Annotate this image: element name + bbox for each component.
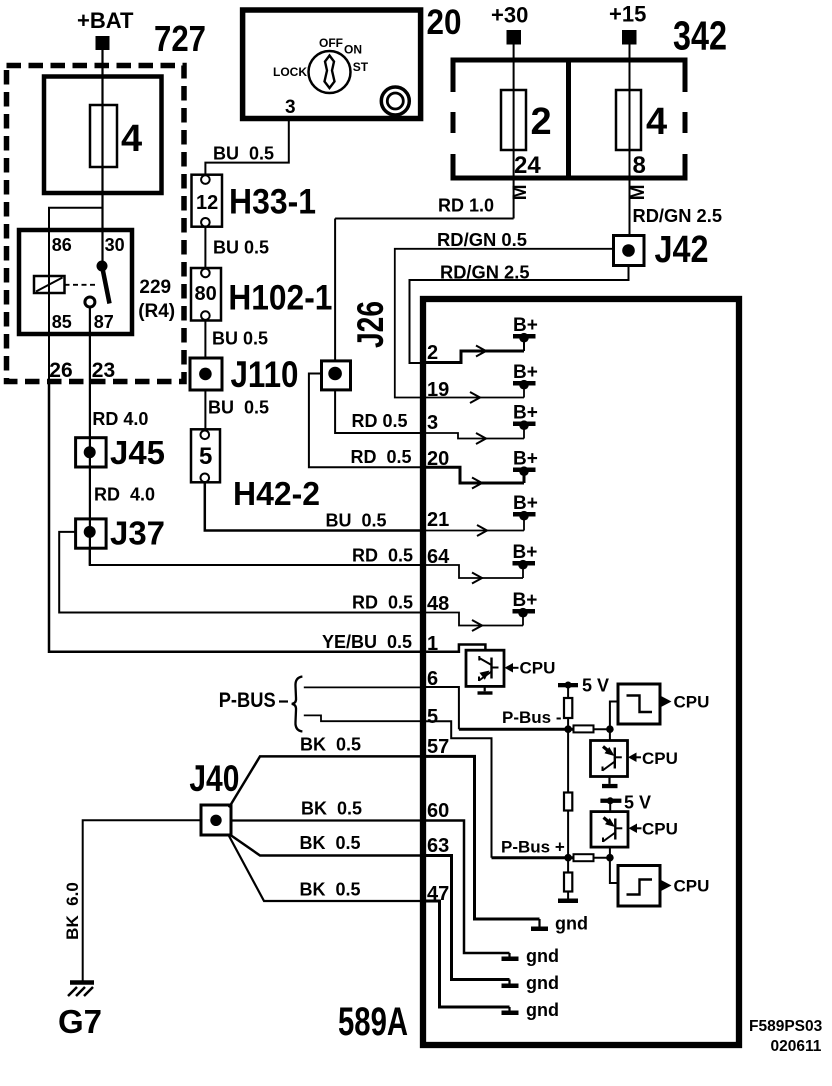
svg-text:BU 0.5: BU 0.5: [213, 238, 269, 258]
svg-text:4: 4: [121, 118, 142, 160]
svg-text:P-Bus +: P-Bus +: [501, 838, 565, 857]
wire J40 to pin 47 (BK 0.5): [229, 835, 424, 901]
svg-text:J26: J26: [350, 301, 391, 348]
wire +15 through fuse 4 down to J42: [629, 45, 631, 236]
wire branch to relay coil 86: [49, 208, 103, 384]
svg-text:57: 57: [427, 736, 449, 758]
wire J40 to pin 57 (BK 0.5): [229, 756, 423, 807]
CPU arrow U1: [505, 663, 514, 673]
svg-text:H33-1: H33-1: [229, 183, 316, 222]
svg-text:30: 30: [105, 235, 125, 255]
fuse 4: [90, 105, 117, 167]
CPU arrow U2: [628, 753, 637, 763]
ground under U1: [484, 686, 486, 691]
svg-text:B+: B+: [513, 403, 538, 424]
svg-text:RD/GN 2.5: RD/GN 2.5: [440, 263, 530, 283]
svg-text:RD 4.0: RD 4.0: [92, 409, 148, 429]
wire +BAT down to relay contact 30: [101, 50, 103, 266]
resistor R3: [564, 873, 572, 892]
gnd pin 63: [502, 973, 560, 993]
comparator rising-edge box: [618, 866, 660, 907]
wire J26 from RD 1.0 down: [334, 219, 336, 361]
svg-text:3: 3: [285, 97, 296, 118]
wire U3 down to P-Bus +: [609, 847, 611, 858]
svg-text:G7: G7: [58, 1003, 102, 1040]
key glyph: [325, 56, 335, 89]
svg-text:3: 3: [427, 412, 438, 434]
svg-text:(R4): (R4): [138, 301, 175, 322]
svg-text:342: 342: [673, 13, 727, 59]
wire H33-1 to H102-1: [204, 227, 206, 268]
svg-text:+15: +15: [609, 2, 646, 27]
svg-text:5: 5: [199, 443, 212, 470]
gnd pin 57: [531, 914, 588, 934]
svg-text:+BAT: +BAT: [77, 8, 134, 33]
svg-text:M: M: [628, 184, 649, 200]
svg-text:F589PS03: F589PS03: [749, 1018, 823, 1035]
svg-text:589A: 589A: [338, 1000, 408, 1044]
connector H102-1: [191, 268, 221, 321]
svg-text:BK 0.5: BK 0.5: [300, 833, 361, 853]
svg-text:RD 0.5: RD 0.5: [352, 546, 413, 566]
svg-text:020611: 020611: [771, 1038, 822, 1055]
wire pin 26 down and right to pin 1 (YE/BU 0.5): [49, 384, 423, 652]
op-amp U3 CPU input: [591, 812, 628, 848]
op-amp U2 CPU input: [591, 741, 628, 777]
brace: [292, 677, 303, 732]
svg-text:B+: B+: [513, 362, 538, 383]
svg-text:gnd: gnd: [526, 1000, 559, 1020]
wire +30 through fuse 2 down: [513, 45, 515, 219]
svg-text:OFF: OFF: [319, 36, 343, 50]
relay contact 30 dot and lever: [97, 261, 108, 272]
svg-text:gnd: gnd: [526, 973, 559, 993]
svg-text:H102-1: H102-1: [228, 279, 332, 318]
svg-text:RD 0.5: RD 0.5: [352, 411, 408, 431]
node dot 2: [606, 725, 614, 733]
svg-text:B+: B+: [513, 590, 538, 611]
svg-text:2: 2: [427, 342, 438, 364]
svg-text:21: 21: [427, 509, 449, 531]
B+ pin 21: [513, 493, 538, 521]
wire H102-1 to J110: [204, 321, 206, 359]
ignition switch unit 20: [243, 10, 421, 119]
ECU box 589A: [423, 299, 739, 1045]
wire J40 to pin 60 (BK 0.5): [231, 819, 423, 821]
splice J42: [614, 236, 645, 266]
wire RD/GN 0.5 J42 to pin 19: [395, 249, 614, 398]
svg-text:M: M: [510, 184, 531, 200]
svg-text:5: 5: [427, 706, 438, 728]
svg-text:5 V: 5 V: [582, 676, 609, 696]
svg-text:8: 8: [633, 152, 646, 179]
svg-text:J40: J40: [189, 758, 239, 799]
resistor RH2: [574, 854, 594, 861]
svg-text:60: 60: [427, 800, 449, 822]
svg-text:24: 24: [514, 152, 541, 179]
svg-text:4: 4: [646, 101, 667, 143]
gnd pin 60: [502, 946, 560, 966]
svg-text:86: 86: [52, 235, 72, 255]
connector H33-1: [192, 175, 223, 227]
ground under U2: [608, 777, 610, 784]
node P-Bus - dot 1: [564, 725, 572, 733]
wire J40 left to G7 (BK 6.0): [83, 820, 201, 982]
svg-text:20: 20: [427, 3, 462, 42]
wire dot2 up to comparator 1: [610, 702, 618, 730]
CPU arrow comparator 1: [661, 696, 672, 707]
svg-text:CPU: CPU: [642, 820, 678, 839]
svg-text:229: 229: [139, 277, 171, 298]
svg-text:LOCK: LOCK: [273, 65, 307, 79]
svg-text:RD 4.0: RD 4.0: [94, 485, 155, 505]
svg-text:RD 0.5: RD 0.5: [352, 593, 413, 613]
wire J110 to H42-2: [204, 390, 206, 429]
fuse 4: [616, 90, 641, 150]
wire H42-2 to pin 21 (BU 0.5): [205, 482, 423, 530]
svg-text:gnd: gnd: [526, 946, 559, 966]
svg-text:B+: B+: [513, 493, 538, 514]
svg-text:P-Bus -: P-Bus -: [502, 708, 562, 727]
connector H42-2: [191, 429, 220, 482]
B+ pin 3: [513, 403, 538, 431]
svg-text:BU 0.5: BU 0.5: [212, 329, 268, 349]
splice J45: [76, 438, 107, 467]
svg-text:BK 0.5: BK 0.5: [301, 799, 362, 819]
svg-text:63: 63: [427, 835, 449, 857]
wire pin 87/23 down to J45: [89, 307, 91, 565]
splice J110: [190, 358, 222, 390]
B+ pin 20: [513, 449, 538, 477]
svg-text:BK 0.5: BK 0.5: [300, 880, 361, 900]
fuse holder box: [44, 77, 162, 194]
svg-text:gnd: gnd: [555, 914, 588, 934]
wire P-BUS to pin 5: [304, 715, 423, 721]
wire J37 left branch to pin 48 (RD 0.5): [59, 532, 423, 613]
node P-Bus + dot 3: [564, 854, 572, 862]
wire ignition pin 3 to H33-1: [205, 118, 288, 176]
wire dot3 down through R3 to gnd: [567, 858, 569, 899]
P-Bus - internal line: [459, 728, 574, 731]
wire RD 1.0 fuse 2 to J26: [335, 218, 513, 220]
svg-text:RD 0.5: RD 0.5: [351, 447, 412, 467]
svg-text:80: 80: [195, 283, 217, 305]
gnd pin 47: [502, 1000, 560, 1020]
svg-text:+30: +30: [491, 3, 528, 28]
svg-text:CPU: CPU: [674, 693, 710, 712]
B+ pin 48: [513, 590, 538, 618]
svg-text:2: 2: [531, 101, 552, 143]
ground G7: [68, 983, 94, 997]
wire J40 to pin 63 (BK 0.5): [229, 834, 423, 856]
node dot 4: [606, 854, 614, 862]
dashed box 727: [7, 66, 185, 382]
svg-text:H42-2: H42-2: [233, 475, 320, 512]
B+ pin 19: [513, 362, 538, 390]
P-Bus + internal line: [492, 856, 574, 859]
B+ pin 64: [513, 542, 538, 570]
fusebox 342: [448, 60, 690, 178]
wire J26 to pin 3 (RD 0.5): [335, 390, 423, 433]
5 V supply #2: [600, 793, 651, 813]
svg-text:B+: B+: [513, 315, 538, 336]
wire J26 left to pin 20 (RD 0.5): [309, 374, 423, 468]
relay contact 87 circle: [85, 297, 95, 307]
wire dot2 down to opto 2: [609, 729, 611, 740]
ground under R3: [558, 899, 578, 904]
relay actuating dashed link: [65, 284, 97, 286]
svg-text:BU 0.5: BU 0.5: [208, 398, 269, 418]
svg-text:87: 87: [94, 312, 114, 332]
svg-text:BK 0.5: BK 0.5: [300, 735, 361, 755]
svg-text:J45: J45: [110, 434, 165, 471]
op-amp U1 CPU input pin1: [466, 650, 504, 686]
svg-text:J37: J37: [110, 515, 165, 552]
resistor RH1: [574, 725, 594, 732]
svg-text:RD/GN 0.5: RD/GN 0.5: [437, 230, 527, 250]
splice J26: [322, 361, 351, 390]
wire RD/GN 2.5 J42 to pin 2: [410, 267, 629, 364]
svg-text:RD 1.0: RD 1.0: [438, 196, 494, 216]
wire J37 to pin 64 (RD 0.5): [90, 548, 423, 565]
svg-text:BU 0.5: BU 0.5: [326, 511, 387, 531]
svg-text:YE/BU 0.5: YE/BU 0.5: [322, 632, 412, 652]
svg-text:5 V: 5 V: [624, 793, 651, 813]
lock cylinder double circle: [381, 87, 409, 115]
svg-text:J110: J110: [231, 354, 299, 395]
5 V supply #1: [558, 676, 609, 696]
svg-text:B+: B+: [513, 449, 538, 470]
svg-text:CPU: CPU: [520, 659, 556, 678]
wire P-BUS to pin 6: [304, 686, 423, 688]
svg-text:85: 85: [52, 312, 72, 332]
CPU arrow U3: [629, 824, 638, 834]
resistor R1: [564, 698, 572, 718]
svg-text:12: 12: [196, 192, 218, 214]
wire dot4 down to comparator 2: [610, 858, 618, 883]
svg-text:23: 23: [92, 359, 115, 382]
fuse 2: [501, 90, 526, 150]
svg-text:J42: J42: [655, 229, 709, 271]
CPU arrow comparator 2: [661, 880, 672, 891]
svg-text:CPU: CPU: [674, 877, 710, 896]
svg-text:ON: ON: [344, 43, 362, 57]
svg-text:26: 26: [49, 359, 72, 382]
svg-text:CPU: CPU: [642, 749, 678, 768]
svg-text:727: 727: [154, 18, 206, 59]
comparator falling-edge box: [618, 684, 660, 724]
resistor R2: [564, 793, 572, 811]
relay coil: [34, 276, 65, 293]
svg-text:BK 6.0: BK 6.0: [63, 882, 82, 940]
svg-text:RD/GN 2.5: RD/GN 2.5: [633, 206, 723, 226]
relay 229 (R4) box: [19, 230, 132, 334]
svg-text:B+: B+: [513, 542, 538, 563]
svg-text:P-BUS: P-BUS: [219, 689, 276, 712]
splice J37: [76, 519, 107, 548]
middle vertical between buses: [567, 729, 569, 858]
svg-text:BU 0.5: BU 0.5: [213, 144, 274, 164]
svg-text:ST: ST: [353, 60, 369, 74]
B+ pin 2: [513, 315, 538, 343]
